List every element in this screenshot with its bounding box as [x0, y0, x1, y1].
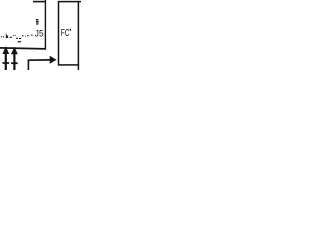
crossbar arrow2	[11, 62, 18, 64]
tick mark after FC	[70, 29, 71, 31]
pin marks ≡ left of V1	[36, 19, 39, 20]
wire vertical V1	[44, 0, 46, 49]
arrow 1 up into bus	[2, 46, 9, 54]
wire bus A horizontal	[0, 48, 46, 49]
wire stem arrow2	[13, 53, 15, 70]
dash mark	[18, 41, 21, 42]
wire B vertical from bottom	[27, 60, 29, 70]
svg-text:J5: J5	[35, 28, 44, 39]
background	[0, 0, 81, 70]
dot before J5	[31, 34, 32, 35]
svg-text:FC: FC	[61, 28, 70, 39]
wire B horizontal	[28, 59, 51, 61]
arrowhead into U1	[50, 56, 57, 64]
wire right edge extension below U1	[77, 65, 79, 70]
wire stem arrow1	[5, 53, 7, 70]
wire top edge extension right of U1	[78, 1, 81, 3]
arrow 2 up into bus	[11, 47, 18, 55]
tiny text noise row	[1, 36, 2, 37]
wire top horizontal H1	[33, 1, 46, 3]
crossbar arrow1	[3, 62, 10, 64]
IC box U1 (FC)	[59, 2, 79, 65]
